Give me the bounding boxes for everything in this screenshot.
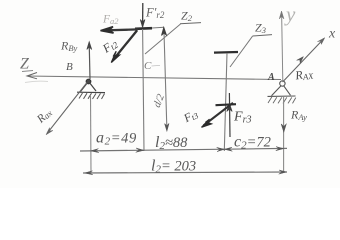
node C label (144, 60, 160, 72)
svg-text:x: x (328, 27, 336, 42)
label Fa2 (faint) (102, 14, 119, 27)
y axis (up from A) (279, 11, 284, 81)
label a2=49 (96, 130, 137, 148)
label F'r2 (145, 6, 165, 21)
label Fr3 (233, 110, 251, 126)
label c2=72 (234, 134, 271, 152)
svg-text:B: B (66, 61, 73, 73)
label Z3 with underline and leader to gear 3 (230, 21, 272, 68)
gear 3 top rim cap (214, 51, 238, 54)
label l2=88 (155, 134, 188, 152)
svg-text:a2=49: a2=49 (96, 130, 137, 148)
node A label (267, 72, 275, 83)
svg-text:Z: Z (20, 56, 30, 73)
label axis y (284, 2, 296, 26)
dimension line row 1 (a2 / l2 / c2) (80, 147, 287, 153)
stray faint pencil line under z axis (25, 81, 48, 82)
svg-text:y: y (284, 2, 296, 26)
label axis X (328, 27, 336, 42)
reaction Rax arrow (down-left) at B (46, 83, 87, 135)
force F'r2 arrow (down onto gear 2 top) (140, 3, 145, 28)
reaction R_AX arrowhead on x axis (297, 57, 304, 64)
support A: pin circle + triangle + ground + hatching (268, 81, 296, 104)
svg-text:Fa2: Fa2 (102, 14, 119, 27)
extension line below B (90, 96, 93, 173)
force Ft3 arrow (thick, down-left diagonal) (202, 103, 234, 128)
reaction R_By arrow (up) at B (87, 42, 92, 80)
dimension line row 2 (l2 = 203 overall) (83, 170, 287, 175)
node B label (66, 61, 73, 73)
reaction R_Ay arrow (down) on A extension line (281, 124, 286, 132)
z axis arrowhead (left end) (27, 73, 37, 79)
force Fa2 arrow (thick, pointing left) (101, 27, 139, 33)
label R_By (60, 39, 78, 54)
label Ft3 (rotated) (181, 108, 200, 126)
gear 3 disc / extension line (224, 53, 227, 151)
dimension d/2 (vertical, right of gear 2) (152, 27, 169, 131)
label axis Z (20, 56, 33, 73)
gear 3 bottom rim cap (216, 104, 237, 105)
label RAX (293, 66, 314, 83)
svg-text:C: C (144, 60, 152, 72)
support B: pin + triangle + ground + hatching (77, 79, 105, 99)
force Ft2 arrow (thick, down-left diagonal) (111, 31, 137, 63)
x axis (diagonal up-right from A) (283, 38, 325, 82)
extension line below A (283, 97, 285, 172)
wire: beam/shaft axis from z-arrow to support A (27, 76, 281, 80)
svg-text:c2=72: c2=72 (234, 134, 271, 152)
force Fr3 arrow (up at gear 3 bottom) (227, 93, 233, 137)
label RAy (290, 108, 307, 123)
label Z2 with underline and leader to gear 2 (145, 9, 201, 55)
label l2=203 (151, 158, 196, 176)
gear 2 disc / extension line at C (143, 29, 144, 151)
svg-text:A: A (267, 72, 275, 83)
label Rax (rotated) (34, 106, 54, 126)
label Ft2 (rotated) (99, 36, 120, 57)
gear 2 rim cap (thick bar at top) (135, 27, 164, 29)
